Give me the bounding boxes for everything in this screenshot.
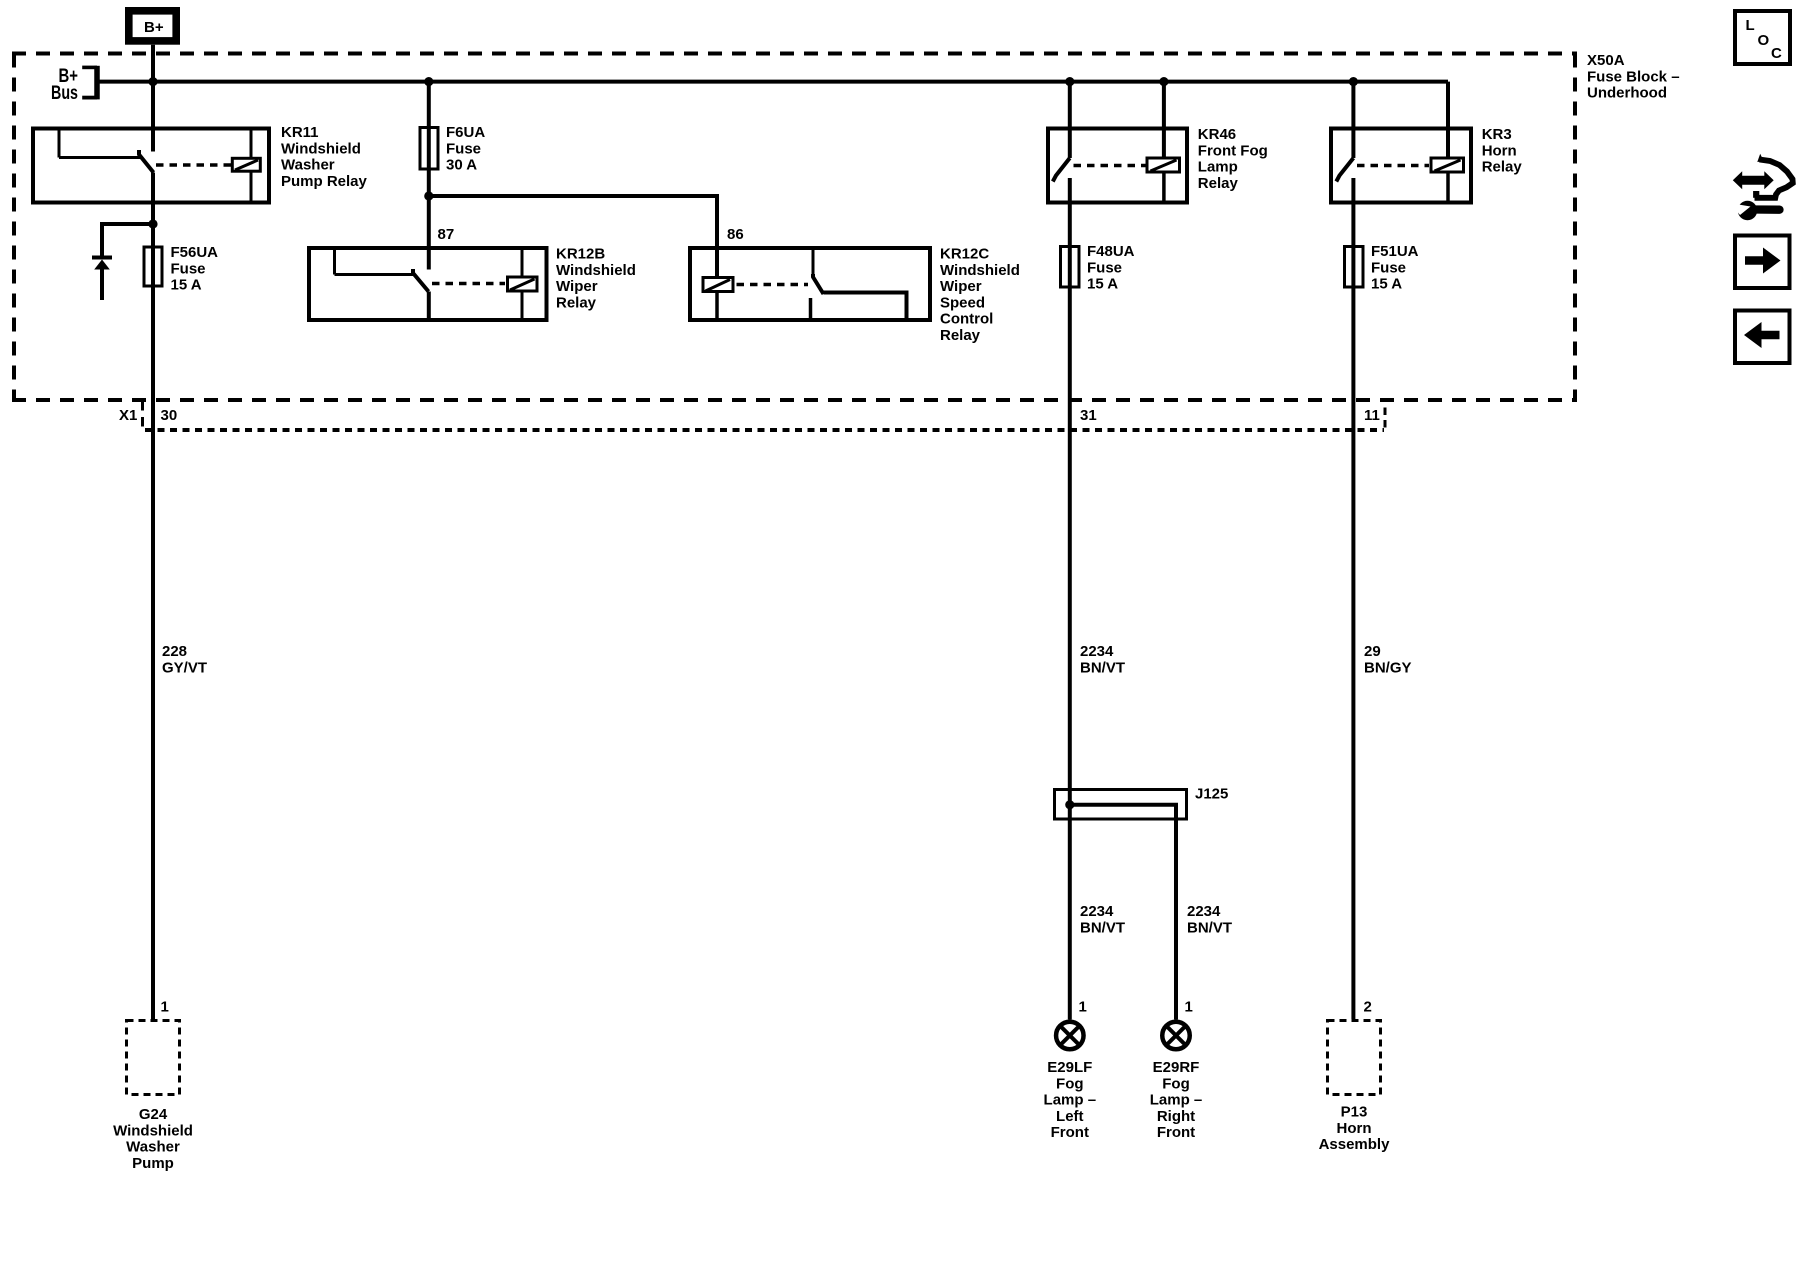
pin label 87: [438, 226, 455, 243]
svg-text:KR12B: KR12B: [556, 246, 605, 263]
wire bus to KR3 pin 30: [1351, 82, 1355, 158]
relay KR3 coil: [1431, 158, 1464, 172]
svg-text:Control: Control: [940, 311, 993, 328]
svg-text:Fuse: Fuse: [1371, 259, 1406, 276]
relay KR3 coil dashed actuator: [1357, 164, 1429, 168]
svg-text:B+: B+: [144, 19, 164, 36]
junction bus / F6UA drop: [424, 77, 433, 86]
splice J125 box: [1055, 790, 1187, 820]
relay KR12C open contact stub: [809, 298, 813, 320]
svg-text:Relay: Relay: [1482, 159, 1523, 176]
icon arrow next box: [1735, 236, 1790, 289]
label X50A Fuse Block - Underhood: [1587, 52, 1680, 102]
svg-text:15 A: 15 A: [171, 277, 202, 294]
svg-text:Front: Front: [1051, 1124, 1089, 1141]
relay KR3 box: [1331, 129, 1471, 203]
svg-text:F51UA: F51UA: [1371, 243, 1419, 260]
svg-text:Horn: Horn: [1337, 1120, 1372, 1137]
relay KR11 coil dashed actuator: [156, 163, 231, 167]
junction bus / KR3 pin30: [1349, 77, 1358, 86]
icon arrow previous box: [1735, 311, 1790, 364]
relay KR12B switch blade: [413, 269, 429, 292]
junction J125: [1065, 800, 1074, 809]
connector X1 dotted line: [145, 428, 1384, 432]
svg-text:Windshield: Windshield: [556, 262, 636, 279]
svg-text:Right: Right: [1157, 1108, 1195, 1125]
icon service info wrench: [1735, 201, 1780, 220]
wire label 228 GY/VT: [162, 643, 207, 676]
svg-text:E29RF: E29RF: [1153, 1059, 1200, 1076]
svg-text:KR11: KR11: [281, 124, 319, 141]
svg-text:Wiper: Wiper: [556, 278, 598, 295]
svg-text:1: 1: [1079, 999, 1087, 1016]
svg-text:1: 1: [1185, 999, 1193, 1016]
svg-text:87: 87: [438, 226, 455, 243]
relay KR12B internal feed: [335, 248, 414, 275]
relay KR12B coil dashed actuator: [432, 282, 505, 286]
wire label 2234 BN/VT left leg: [1080, 903, 1125, 936]
svg-text:BN/VT: BN/VT: [1187, 919, 1232, 936]
relay KR12B coil wires: [521, 248, 524, 320]
diode CR1: [92, 258, 112, 301]
wire label 2234 BN/VT right leg: [1187, 903, 1232, 936]
junction bus / KR46 pin30: [1065, 77, 1074, 86]
svg-text:L: L: [1746, 17, 1755, 34]
junction bus / B+ drop: [148, 77, 157, 86]
label E29RF Fog Lamp - Right Front: [1150, 1059, 1203, 1141]
svg-text:F6UA: F6UA: [446, 124, 485, 141]
pin label 31: [1080, 407, 1097, 424]
svg-text:Windshield: Windshield: [940, 262, 1020, 279]
svg-text:1: 1: [161, 999, 169, 1016]
svg-text:29: 29: [1364, 643, 1381, 660]
svg-text:Bus: Bus: [51, 83, 78, 104]
label KR3 Horn Relay: [1482, 126, 1523, 176]
svg-text:Front: Front: [1157, 1124, 1195, 1141]
svg-text:KR12C: KR12C: [940, 246, 989, 263]
svg-text:J125: J125: [1195, 786, 1228, 803]
relay KR46 coil wires: [1162, 82, 1166, 203]
svg-text:KR46: KR46: [1198, 126, 1236, 143]
pin label 1 at E29RF: [1185, 999, 1193, 1016]
lamp E29LF: [1056, 1022, 1084, 1050]
svg-text:Left: Left: [1056, 1108, 1084, 1125]
wire B+ bus: [96, 80, 1449, 84]
svg-text:31: 31: [1080, 407, 1097, 424]
svg-text:O: O: [1758, 32, 1770, 49]
label F48UA Fuse 15 A: [1087, 243, 1135, 293]
svg-text:30: 30: [161, 407, 178, 424]
svg-text:Front Fog: Front Fog: [1198, 142, 1268, 159]
pin label 86: [727, 226, 744, 243]
svg-text:E29LF: E29LF: [1047, 1059, 1092, 1076]
wire KR11 output through F56UA to X1 pin 30: [151, 173, 155, 1020]
pin label 2 at P13: [1364, 999, 1372, 1016]
svg-text:Windshield: Windshield: [113, 1122, 193, 1139]
svg-text:Horn: Horn: [1482, 142, 1517, 159]
lamp E29RF: [1162, 1022, 1190, 1050]
label F56UA Fuse 15 A: [171, 244, 219, 294]
relay KR12B output wire: [427, 292, 431, 321]
pin label 1 at G24: [161, 999, 169, 1016]
relay KR46 coil dashed actuator: [1074, 164, 1146, 168]
pin label 11: [1364, 407, 1380, 424]
svg-text:Fuse: Fuse: [171, 260, 206, 277]
relay KR11 coil wires: [250, 129, 253, 203]
wire label 2234 BN/VT: [1080, 643, 1125, 676]
wire B+ terminal to bus: [151, 45, 155, 152]
svg-text:Fuse Block –: Fuse Block –: [1587, 68, 1680, 85]
svg-text:Wiper: Wiper: [940, 278, 982, 295]
relay KR12C switch common: [812, 248, 815, 274]
label J125: [1195, 786, 1228, 803]
svg-text:Fog: Fog: [1056, 1075, 1084, 1092]
svg-text:Washer: Washer: [126, 1139, 180, 1156]
relay KR12B coil: [508, 277, 538, 291]
svg-text:86: 86: [727, 226, 744, 243]
node B+ Bus bracket: [51, 66, 97, 104]
svg-text:30 A: 30 A: [446, 157, 477, 174]
label F51UA Fuse 15 A: [1371, 243, 1419, 293]
svg-text:X50A: X50A: [1587, 52, 1625, 69]
svg-text:228: 228: [162, 643, 187, 660]
relay KR12C box: [690, 248, 930, 320]
svg-text:Assembly: Assembly: [1319, 1136, 1391, 1153]
relay KR12C coil dashed actuator: [737, 283, 809, 287]
svg-text:Washer: Washer: [281, 157, 335, 174]
svg-text:Relay: Relay: [556, 294, 597, 311]
pin label 1 at E29LF: [1079, 999, 1087, 1016]
fuse block X50A dashed border: [12, 54, 1577, 401]
svg-text:2234: 2234: [1187, 903, 1221, 920]
junction branch 87/86: [424, 191, 433, 200]
label KR46 Front Fog Lamp Relay: [1198, 126, 1268, 192]
wire J125 branch to E29RF: [1070, 805, 1176, 1020]
pin label 30: [161, 407, 178, 424]
svg-text:Lamp: Lamp: [1198, 159, 1238, 176]
relay KR12C coil bottom wire: [715, 293, 719, 320]
svg-text:C: C: [1771, 45, 1782, 62]
fuse F56UA: [144, 247, 162, 286]
svg-text:Pump: Pump: [132, 1155, 174, 1172]
svg-text:P13: P13: [1341, 1104, 1368, 1121]
svg-text:BN/GY: BN/GY: [1364, 659, 1412, 676]
relay KR12C switch blade: [813, 274, 824, 294]
svg-text:Speed: Speed: [940, 294, 985, 311]
label KR12B Windshield Wiper Relay: [556, 246, 636, 312]
svg-text:2234: 2234: [1080, 643, 1114, 660]
label P13 Horn Assembly: [1319, 1104, 1391, 1154]
relay KR11 switch blade: [139, 150, 154, 173]
svg-text:Lamp –: Lamp –: [1044, 1092, 1097, 1109]
relay KR12C output wire: [824, 293, 907, 321]
svg-text:Underhood: Underhood: [1587, 85, 1667, 102]
svg-text:Lamp –: Lamp –: [1150, 1092, 1203, 1109]
fuse F6UA: [420, 128, 438, 170]
svg-text:X1: X1: [119, 407, 137, 424]
junction bus / KR46 coil: [1159, 77, 1168, 86]
relay KR12C coil: [703, 278, 733, 292]
relay KR11 coil: [232, 158, 260, 171]
svg-text:BN/VT: BN/VT: [1080, 919, 1125, 936]
svg-text:F48UA: F48UA: [1087, 243, 1135, 260]
svg-text:G24: G24: [139, 1106, 168, 1123]
svg-text:Fog: Fog: [1162, 1075, 1190, 1092]
icon service info arrows: [1733, 171, 1774, 189]
svg-text:Windshield: Windshield: [281, 140, 361, 157]
svg-text:2: 2: [1364, 999, 1372, 1016]
wire diode branch: [102, 224, 153, 256]
wire KR3 output through F51UA to P13: [1351, 178, 1355, 1019]
wire bus to F6UA to branch junction: [427, 82, 431, 196]
fuse F48UA: [1061, 247, 1080, 288]
junction diode branch: [148, 219, 157, 228]
svg-text:Fuse: Fuse: [446, 140, 481, 157]
connector G24 dashed box: [127, 1021, 180, 1095]
svg-text:F56UA: F56UA: [171, 244, 219, 261]
svg-text:15 A: 15 A: [1371, 276, 1402, 293]
svg-text:11: 11: [1364, 407, 1380, 424]
label KR12C Windshield Wiper Speed Control Relay: [940, 246, 1020, 345]
label X1: [119, 407, 137, 424]
label G24 Windshield Washer Pump: [113, 1106, 193, 1172]
label E29LF Fog Lamp - Left Front: [1044, 1059, 1097, 1141]
wire branch to KR12B pin 87: [427, 196, 431, 270]
relay KR46 switch blade: [1053, 158, 1070, 182]
icon service info curved outline: [1755, 154, 1793, 198]
svg-text:BN/VT: BN/VT: [1080, 659, 1125, 676]
svg-text:KR3: KR3: [1482, 126, 1512, 143]
relay KR3 switch blade: [1336, 158, 1353, 182]
svg-text:Pump Relay: Pump Relay: [281, 173, 368, 190]
relay KR12B box: [309, 248, 547, 320]
wire KR46 output through F48UA to J125: [1068, 178, 1072, 1020]
svg-text:Relay: Relay: [1198, 175, 1239, 192]
fuse F51UA: [1345, 247, 1364, 288]
svg-text:15 A: 15 A: [1087, 276, 1118, 293]
svg-text:GY/VT: GY/VT: [162, 659, 207, 676]
relay KR3 coil wires: [1446, 82, 1450, 203]
connector X1 right tick: [1384, 408, 1387, 430]
label F6UA Fuse 30 A: [446, 124, 485, 174]
label KR11 Windshield Washer Pump Relay: [281, 124, 368, 190]
relay KR11 internal feed: [59, 129, 141, 158]
relay KR46 coil: [1147, 158, 1180, 172]
icon LOC box: [1735, 11, 1790, 64]
svg-text:Fuse: Fuse: [1087, 259, 1122, 276]
wire bus to KR46 pin 30: [1068, 82, 1072, 158]
wire label 29 BN/GY: [1364, 643, 1412, 676]
connector X1 left tick: [141, 401, 144, 429]
power terminal B+: [129, 11, 176, 41]
svg-text:Relay: Relay: [940, 327, 981, 344]
relay KR11 box: [33, 129, 269, 203]
svg-text:2234: 2234: [1080, 903, 1114, 920]
wire branch to KR12C pin 86: [429, 196, 717, 277]
connector P13 dashed box: [1328, 1021, 1381, 1095]
relay KR46 box: [1048, 129, 1187, 203]
